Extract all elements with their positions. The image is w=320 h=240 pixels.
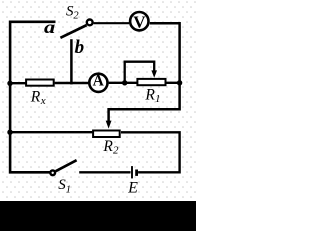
svg-text:R: R	[30, 88, 41, 105]
svg-text:1: 1	[66, 184, 71, 195]
svg-text:2: 2	[73, 11, 79, 22]
svg-text:x: x	[40, 95, 46, 107]
svg-text:a: a	[44, 17, 55, 37]
svg-text:1: 1	[155, 93, 161, 105]
svg-text:V: V	[133, 12, 146, 31]
svg-text:b: b	[75, 37, 85, 58]
svg-text:R: R	[144, 86, 155, 103]
svg-text:E: E	[127, 180, 138, 197]
svg-text:2: 2	[113, 145, 119, 157]
svg-text:A: A	[93, 72, 105, 89]
svg-text:R: R	[102, 138, 113, 155]
